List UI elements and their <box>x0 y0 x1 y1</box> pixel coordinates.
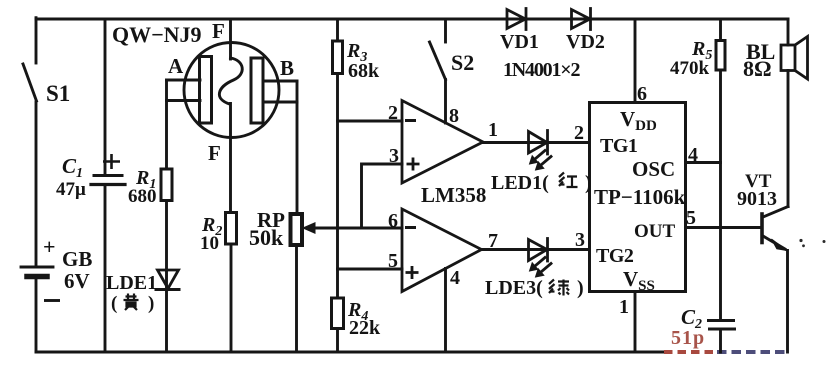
capacitor C2 bottom plate <box>710 328 735 331</box>
label IC pin5 <box>686 207 696 229</box>
wire R2 to bottom rail <box>230 244 233 352</box>
transistor VT emitter lead with arrow <box>763 236 787 251</box>
label 680 value <box>128 186 157 207</box>
svg-text:470k: 470k <box>670 58 710 79</box>
label LDE1 colour yellow <box>111 293 154 314</box>
op1 non-inverting input plus sign <box>407 158 420 171</box>
label C1 <box>62 154 83 181</box>
svg-text:6V: 6V <box>64 269 90 293</box>
LED LDE3 light arrows <box>530 258 552 278</box>
label R5 <box>691 38 712 63</box>
svg-text:680: 680 <box>128 186 157 207</box>
svg-text:A: A <box>168 54 184 78</box>
label 470k value <box>670 58 710 79</box>
LED LDE1 triangle <box>158 270 179 289</box>
wire top supply rail <box>36 18 788 21</box>
label R4 <box>347 299 368 324</box>
gas sensor QW-NJ9 body circle <box>184 43 279 138</box>
resistor R2 body <box>226 213 237 245</box>
capacitor C1 positive plate <box>94 174 122 177</box>
svg-text:50k: 50k <box>249 225 284 250</box>
wire A branch down to R1 <box>165 80 168 169</box>
wire LDE1 to bottom rail <box>165 290 168 353</box>
label 1N4001x2 value <box>503 59 580 81</box>
svg-text:1N4001×2: 1N4001×2 <box>503 59 580 81</box>
label 68k value <box>348 60 380 82</box>
svg-text:6: 6 <box>388 210 398 232</box>
op1 inverting input minus sign <box>405 119 416 122</box>
label LED1 red <box>491 172 592 194</box>
label pin F top <box>212 19 225 43</box>
diode VD1 cathode bar <box>525 9 528 30</box>
wire R5 top lead <box>719 19 722 41</box>
svg-text:9013: 9013 <box>737 188 777 210</box>
svg-text:): ) <box>585 172 592 194</box>
speaker BL horn <box>795 37 808 80</box>
glyph huang yellow character <box>124 294 139 311</box>
svg-text:F: F <box>212 19 225 43</box>
label IC pin3 <box>575 229 585 251</box>
label IC pin2 <box>574 122 584 144</box>
label node B <box>280 56 294 80</box>
wire top rail right corner down to speaker <box>787 19 790 45</box>
LED LED1 light arrows <box>530 151 552 171</box>
node A electrode tab <box>167 80 201 101</box>
diode VD1 triangle <box>507 10 526 29</box>
svg-text:): ) <box>577 277 584 299</box>
svg-text:): ) <box>148 293 154 314</box>
label R1 <box>135 167 156 192</box>
label OSC <box>632 157 675 181</box>
label op2 pin7 <box>488 230 498 252</box>
svg-text:8: 8 <box>449 105 459 127</box>
wire R1 to LDE1 <box>165 201 168 289</box>
op-amp U1A LM358 triangle <box>402 101 483 184</box>
svg-text:TP−1106k: TP−1106k <box>594 185 686 209</box>
svg-text:B: B <box>280 56 294 80</box>
svg-text:VD1: VD1 <box>500 31 539 53</box>
wire op2 pin5 input <box>338 268 403 271</box>
label GB <box>62 247 92 271</box>
wire speaker to collector <box>787 71 790 207</box>
svg-text:5: 5 <box>686 207 696 229</box>
resistor R1 body <box>161 169 172 201</box>
wire left border middle segment <box>35 102 38 266</box>
LED LED1 cathode bar <box>546 131 549 155</box>
label TG1 <box>600 135 637 157</box>
label 6V <box>64 269 90 293</box>
label R3 <box>346 40 367 65</box>
label 47u value <box>56 179 86 200</box>
capacitor C2 top plate <box>709 319 734 322</box>
label TP-1106k <box>594 185 686 209</box>
svg-text:LDE1: LDE1 <box>106 272 157 294</box>
wire bottom rail red tinted segment <box>664 350 717 354</box>
transistor VT collector lead <box>763 207 788 218</box>
svg-text:F: F <box>208 141 221 165</box>
switch S2 blade <box>430 42 446 80</box>
label C1 polarity plus <box>103 154 120 169</box>
svg-text:QW−NJ9: QW−NJ9 <box>112 22 202 47</box>
glyph hong red character <box>559 173 578 188</box>
svg-text:OSC: OSC <box>632 157 675 181</box>
wire IC pin4 OSC stub <box>686 161 721 164</box>
label op1 pin3 <box>389 145 399 167</box>
wire op2 output pin7 <box>482 248 590 251</box>
svg-text:1: 1 <box>488 119 498 141</box>
label 51p value <box>671 327 705 349</box>
glyph lv green character <box>549 280 569 296</box>
scan speck dots <box>799 239 825 247</box>
svg-text:22k: 22k <box>349 317 381 339</box>
diode VD2 cathode bar <box>589 9 592 30</box>
wire R3 top lead <box>336 19 339 41</box>
svg-text:S2: S2 <box>451 50 474 75</box>
svg-text:7: 7 <box>488 230 498 252</box>
label IC pin1 <box>619 296 629 318</box>
label op1 pin1 <box>488 119 498 141</box>
svg-text:2: 2 <box>388 102 398 124</box>
wire R5 to C2 vertical <box>719 70 722 320</box>
label 8 ohm value <box>743 56 772 81</box>
svg-text:GB: GB <box>62 247 92 271</box>
label op1 pin2 <box>388 102 398 124</box>
svg-text:LDE3(: LDE3( <box>485 277 543 299</box>
speaker BL frame <box>781 45 795 71</box>
label op1 pin8 <box>449 105 459 127</box>
svg-text:1: 1 <box>619 296 629 318</box>
svg-text:+: + <box>43 234 56 259</box>
wire C1 branch bottom <box>104 186 107 352</box>
wire IC pin6 VDD stub <box>634 19 637 103</box>
wire RP to bottom rail <box>295 245 298 352</box>
svg-text:4: 4 <box>450 267 460 289</box>
label OUT <box>634 221 676 242</box>
svg-text:6: 6 <box>637 83 647 105</box>
label 10 value <box>200 233 219 254</box>
svg-text:S1: S1 <box>46 81 70 106</box>
label VSS <box>623 267 655 294</box>
label R2 <box>201 214 222 239</box>
resistor R5 body <box>716 41 725 71</box>
svg-text:8Ω: 8Ω <box>743 56 772 81</box>
label IC pin6 <box>637 83 647 105</box>
op2 inverting input minus sign <box>405 226 416 229</box>
label pin F bottom <box>208 141 221 165</box>
svg-text:(: ( <box>111 293 117 314</box>
wire R4 to bottom rail <box>336 329 339 353</box>
svg-text:5: 5 <box>388 250 398 272</box>
svg-text:2: 2 <box>574 122 584 144</box>
label S2 <box>451 50 474 75</box>
label op2 pin4 <box>450 267 460 289</box>
LED LDE3 cathode bar <box>546 239 549 262</box>
label 50k value <box>249 225 284 250</box>
label 9013 <box>737 188 777 210</box>
transistor VT base bar <box>760 214 764 243</box>
label LM358 <box>421 183 486 207</box>
svg-text:OUT: OUT <box>634 221 676 242</box>
svg-text:VSS: VSS <box>623 267 655 294</box>
wire heater F top lead <box>229 19 232 59</box>
gas sensor left electrode plate A <box>200 57 212 124</box>
battery GB short negative plate <box>27 274 47 280</box>
wire bottom rail blue tinted segment <box>717 350 788 354</box>
diode VD2 triangle <box>572 10 591 29</box>
label C2 <box>681 305 702 332</box>
svg-text:LED1(: LED1( <box>491 172 549 194</box>
label LDE3 green <box>485 277 584 299</box>
wire C1 branch top <box>104 19 107 174</box>
resistor R4 body <box>332 298 344 329</box>
svg-text:LM358: LM358 <box>421 183 486 207</box>
wire op1 pin2 input <box>338 120 403 123</box>
wire heater F bottom lead <box>229 104 232 213</box>
label op2 pin5 <box>388 250 398 272</box>
label S1 <box>46 81 70 106</box>
potentiometer RP body <box>291 214 303 245</box>
wire IC pin5 OUT to transistor base <box>686 226 761 229</box>
label 22k value <box>349 317 381 339</box>
label node A <box>168 54 184 78</box>
svg-text:4: 4 <box>688 144 698 166</box>
label BL <box>746 39 775 64</box>
wire op2 pin6 input <box>313 227 402 230</box>
svg-text:C1: C1 <box>62 154 83 181</box>
label battery minus <box>44 299 60 302</box>
label battery plus <box>43 234 56 259</box>
wire S2 to op1 pin8 <box>444 80 447 124</box>
gas sensor heater squiggle <box>219 58 242 104</box>
wire bottom ground rail <box>36 351 664 354</box>
wire op1 output pin1 <box>483 141 590 144</box>
svg-text:VDD: VDD <box>620 107 657 134</box>
label VT <box>745 171 772 192</box>
wire IC pin1 VSS to ground <box>634 292 637 353</box>
wire op2 pin4 to ground <box>444 269 447 353</box>
battery GB long positive plate <box>21 266 53 269</box>
gas sensor right electrode plate B <box>251 58 263 123</box>
svg-text:68k: 68k <box>348 60 380 82</box>
switch S2 top stub <box>444 19 447 42</box>
svg-text:TG1: TG1 <box>600 135 637 157</box>
svg-text:3: 3 <box>575 229 585 251</box>
LED LDE1 cathode bar <box>156 288 179 291</box>
label IC pin4 <box>688 144 698 166</box>
label TG2 <box>596 245 634 267</box>
op-amp U1B LM358 triangle <box>402 209 482 292</box>
node B electrode tab <box>263 81 297 102</box>
switch S1 <box>23 64 37 101</box>
potentiometer RP wiper arrow <box>303 223 402 233</box>
LED LDE3 triangle <box>529 240 548 261</box>
wire B branch down to RP <box>296 81 299 214</box>
label VD1 <box>500 31 539 53</box>
label RP <box>257 208 285 232</box>
label op2 pin6 <box>388 210 398 232</box>
label VDD <box>620 107 657 134</box>
svg-text:51p: 51p <box>671 327 705 349</box>
svg-text:TG2: TG2 <box>596 245 634 267</box>
svg-text:VD2: VD2 <box>566 31 605 53</box>
resistor R3 body <box>333 41 343 74</box>
wire emitter to bottom rail <box>786 251 789 353</box>
svg-text:3: 3 <box>389 145 399 167</box>
label VD2 <box>566 31 605 53</box>
op2 non-inverting input plus sign <box>406 266 419 279</box>
wire op1 pin3 input <box>362 164 403 228</box>
IC U2 TP-1106k box <box>590 103 686 292</box>
label QW-NJ9 <box>112 22 202 47</box>
LED LED1 triangle <box>529 132 548 154</box>
wire C2 to bottom rail <box>719 329 722 352</box>
svg-text:47μ: 47μ <box>56 179 86 200</box>
label LDE1 <box>106 272 157 294</box>
capacitor C1 negative plate <box>91 183 125 186</box>
svg-text:10: 10 <box>200 233 219 254</box>
wire left border top segment <box>35 18 38 63</box>
wire R3 to R4 vertical <box>336 74 339 299</box>
wire left border bottom segment <box>35 278 38 352</box>
